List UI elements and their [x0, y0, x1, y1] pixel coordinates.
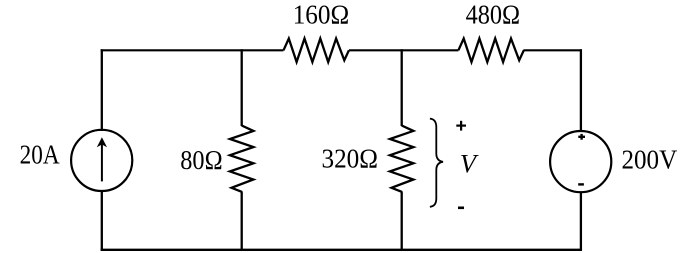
wire left branch upper: [101, 49, 103, 131]
wire 320ohm branch lower: [401, 191, 403, 251]
voltage source V1 circle: [550, 131, 611, 192]
resistor R2 160ohm zigzag: [284, 39, 349, 63]
wire top segment 160ohm to 480ohm: [349, 49, 459, 51]
svg-text:80Ω: 80Ω: [180, 144, 222, 175]
svg-text:20A: 20A: [20, 139, 60, 170]
brace for V across 320ohm: [430, 119, 443, 207]
resistor R3 320ohm zigzag: [390, 126, 414, 192]
wire top segment 480ohm to top-right corner: [523, 49, 582, 51]
wire 80ohm branch upper: [241, 49, 243, 126]
svg-text:480Ω: 480Ω: [466, 0, 520, 30]
resistor R1 80ohm zigzag: [230, 126, 254, 192]
voltage source minus terminal: [578, 183, 584, 185]
current source I1 arrow: [97, 137, 107, 181]
wire 320ohm branch upper: [401, 49, 403, 126]
svg-text:320Ω: 320Ω: [322, 143, 379, 174]
wire bottom rail: [101, 249, 582, 251]
plus sign of V: [456, 121, 466, 131]
svg-text:160Ω: 160Ω: [293, 0, 350, 30]
current source I1 circle: [71, 130, 132, 191]
wire left branch lower: [101, 190, 103, 251]
wire 80ohm branch lower: [241, 191, 243, 251]
wire top segment node A to 160ohm: [101, 49, 284, 51]
svg-text:200V: 200V: [622, 144, 678, 175]
wire right branch lower: [580, 192, 582, 251]
voltage source plus terminal: [578, 134, 585, 140]
resistor R4 480ohm zigzag: [458, 39, 523, 63]
wire right branch upper: [580, 49, 582, 131]
minus sign of V: [458, 207, 464, 210]
svg-text:V: V: [460, 149, 479, 179]
